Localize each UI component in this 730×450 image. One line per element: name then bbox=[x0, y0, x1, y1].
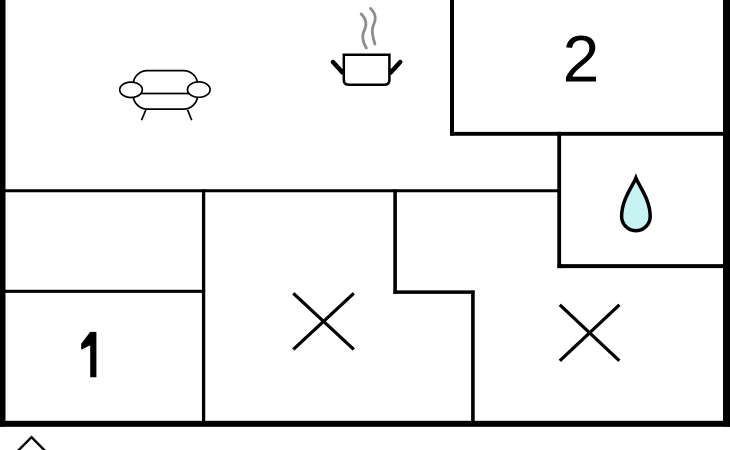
wire step wall y292 bbox=[393, 290, 474, 294]
sofa left leg bbox=[142, 110, 146, 120]
sofa left armrest bbox=[120, 82, 143, 97]
wire outer bottom wall bbox=[0, 421, 730, 427]
sofa right leg bbox=[188, 110, 192, 120]
sofa body bbox=[133, 71, 197, 110]
wire room1 top wall y291 bbox=[0, 290, 205, 293]
wire vertical wall x473 bbox=[471, 290, 475, 423]
room label 1 bbox=[81, 332, 96, 377]
wire outer right wall bbox=[723, 0, 730, 427]
pot body bbox=[344, 55, 390, 85]
wire corridor wall horizontal y190 bbox=[0, 189, 561, 192]
wire vertical wall x203 bbox=[202, 189, 205, 423]
pot right handle bbox=[391, 62, 401, 73]
wire room2 left wall x452 bbox=[450, 0, 454, 136]
X mark middle room bbox=[293, 293, 354, 349]
north arrow caret (cut off) bbox=[17, 437, 47, 450]
wire bathroom bottom wall y266 bbox=[557, 264, 730, 268]
wire outer left wall bbox=[0, 0, 6, 427]
sofa seat line bbox=[138, 93, 193, 95]
steam right bbox=[371, 9, 376, 45]
sofa right armrest bbox=[188, 82, 211, 97]
water drop bbox=[622, 178, 651, 231]
wire vertical wall x395 bbox=[393, 189, 397, 294]
steam left bbox=[361, 14, 366, 48]
pot left handle bbox=[333, 62, 343, 73]
wire bathroom left wall x559 bbox=[557, 132, 561, 268]
X mark right room bbox=[560, 305, 620, 361]
wire room2 bottom wall y134 bbox=[450, 132, 730, 136]
svg-text:2: 2 bbox=[563, 22, 600, 96]
